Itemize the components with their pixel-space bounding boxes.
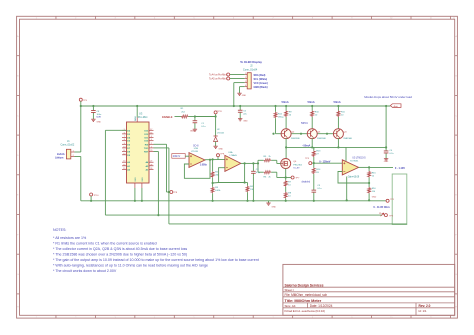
svg-text:TP11: TP11 bbox=[217, 111, 223, 113]
svg-text:VCC (Green): VCC (Green) bbox=[254, 82, 269, 85]
svg-text:1: 1 bbox=[73, 150, 74, 152]
svg-text:KiCad E.D.A. eeschema (6.0.10: KiCad E.D.A. eeschema (6.0.10) bbox=[285, 309, 326, 313]
svg-text:Mosfet drops about 50mV under: Mosfet drops about 50mV under load bbox=[364, 95, 412, 99]
svg-text:1: 1 bbox=[36, 317, 37, 319]
svg-text:To A5 on Pro-Mini: To A5 on Pro-Mini bbox=[209, 78, 227, 81]
svg-text:9: 9 bbox=[124, 143, 125, 145]
svg-text:GND: GND bbox=[384, 161, 389, 163]
svg-text:* R1 limits the current into C: * R1 limits the current into C1 when the… bbox=[53, 242, 157, 246]
svg-text:Gain=10.09: Gain=10.09 bbox=[348, 177, 360, 179]
svg-text:1: 1 bbox=[36, 18, 37, 20]
svg-text:8: 8 bbox=[312, 18, 313, 20]
svg-text:6.3V: 6.3V bbox=[97, 117, 102, 119]
svg-text:12: 12 bbox=[123, 153, 125, 155]
svg-text:6: 6 bbox=[233, 18, 234, 20]
svg-text:1.000x: 1.000x bbox=[200, 163, 208, 166]
svg-text:0 - 1.10V: 0 - 1.10V bbox=[395, 166, 405, 170]
svg-text:LT6A05: LT6A05 bbox=[230, 154, 238, 157]
svg-text:28: 28 bbox=[150, 164, 152, 166]
svg-text:* With auto-ranging, resistanc: * With auto-ranging, resistances of up t… bbox=[53, 264, 208, 268]
svg-text:Id: 1/1: Id: 1/1 bbox=[419, 309, 427, 313]
svg-text:TXO: TXO bbox=[144, 148, 149, 150]
svg-text:GND: GND bbox=[243, 121, 248, 123]
svg-text:1: 1 bbox=[151, 146, 152, 148]
svg-text:50mA: 50mA bbox=[282, 100, 289, 104]
svg-text:11: 11 bbox=[430, 317, 432, 319]
svg-text:NOTES:: NOTES: bbox=[53, 228, 66, 232]
svg-text:26: 26 bbox=[150, 168, 152, 170]
svg-text:Title: MilliOhm Meter: Title: MilliOhm Meter bbox=[285, 299, 322, 303]
svg-text:* The gain of the output amp i: * The gain of the output amp is 10.09 in… bbox=[53, 258, 259, 262]
svg-text:10: 10 bbox=[123, 146, 125, 148]
svg-text:RAW: RAW bbox=[134, 116, 137, 121]
svg-text:4: 4 bbox=[154, 18, 155, 20]
svg-text:GND: GND bbox=[372, 197, 377, 199]
svg-text:To OLED Display: To OLED Display bbox=[240, 60, 262, 64]
svg-text:Sheet: /: Sheet: / bbox=[285, 288, 295, 292]
svg-text:* The collector current in Q2A: * The collector current in Q2A, Q2B & Q3… bbox=[53, 247, 187, 251]
svg-text:2SB1586: 2SB1586 bbox=[291, 138, 300, 140]
svg-text:7: 7 bbox=[124, 136, 125, 138]
svg-text:16: 16 bbox=[150, 132, 152, 134]
svg-text:4: 4 bbox=[151, 136, 152, 138]
svg-text:Conn_01x02: Conn_01x02 bbox=[61, 143, 75, 146]
svg-text:4: 4 bbox=[154, 317, 155, 319]
svg-text:Date: 1/12/2024: Date: 1/12/2024 bbox=[310, 304, 333, 308]
svg-text:0 - 11.05 Ohm: 0 - 11.05 Ohm bbox=[373, 205, 390, 209]
svg-text:0 - 120mV: 0 - 120mV bbox=[319, 161, 331, 164]
svg-text:6: 6 bbox=[124, 132, 125, 134]
svg-text:9: 9 bbox=[351, 18, 352, 20]
svg-text:* The 2SB1586 was chosen over: * The 2SB1586 was chosen over a 2N2906 d… bbox=[53, 253, 187, 257]
svg-text:Pro-Mini: Pro-Mini bbox=[138, 115, 148, 119]
svg-text:TP10: TP10 bbox=[93, 195, 99, 197]
svg-text:ENABLE: ENABLE bbox=[162, 115, 173, 119]
svg-text:27: 27 bbox=[150, 161, 152, 163]
svg-text:2: 2 bbox=[151, 143, 152, 145]
svg-text:7: 7 bbox=[272, 18, 273, 20]
svg-text:Rev: 2.0: Rev: 2.0 bbox=[419, 304, 431, 308]
svg-text:GND: GND bbox=[135, 177, 137, 182]
svg-text:LT1635: LT1635 bbox=[191, 151, 199, 153]
svg-text:15: 15 bbox=[123, 168, 125, 170]
svg-text:50mA: 50mA bbox=[308, 100, 315, 104]
svg-text:200mV: 200mV bbox=[173, 155, 181, 158]
svg-text:GND: GND bbox=[142, 177, 144, 182]
svg-text:3: 3 bbox=[245, 81, 246, 83]
svg-text:To A4 on Pro-Mini: To A4 on Pro-Mini bbox=[209, 74, 227, 77]
svg-text:PE12302: PE12302 bbox=[293, 164, 302, 166]
svg-text:5: 5 bbox=[194, 317, 195, 319]
svg-text:GND: GND bbox=[242, 95, 247, 97]
svg-text:9: 9 bbox=[351, 317, 352, 319]
svg-text:2: 2 bbox=[245, 77, 246, 79]
svg-text:SCL (White): SCL (White) bbox=[254, 78, 268, 81]
svg-text:GND: GND bbox=[219, 149, 224, 151]
svg-text:U5A: U5A bbox=[228, 151, 233, 154]
svg-text:3: 3 bbox=[115, 18, 116, 20]
svg-text:disabled: disabled bbox=[302, 180, 311, 183]
svg-text:RXI: RXI bbox=[145, 144, 149, 146]
svg-text:29: 29 bbox=[150, 150, 152, 152]
svg-text:3: 3 bbox=[151, 139, 152, 141]
svg-text:File: MilliOhm_meter.kicad_sch: File: MilliOhm_meter.kicad_sch bbox=[285, 293, 328, 297]
svg-text:SO-8: SO-8 bbox=[193, 144, 199, 147]
svg-text:14: 14 bbox=[123, 164, 125, 166]
svg-text:* All resistors are 1%: * All resistors are 1% bbox=[53, 236, 87, 240]
svg-text:2SB1586: 2SB1586 bbox=[343, 138, 352, 140]
svg-text:LT1634: LT1634 bbox=[217, 132, 225, 134]
svg-text:1: 1 bbox=[245, 73, 246, 75]
svg-text:6: 6 bbox=[233, 317, 234, 319]
svg-text:2: 2 bbox=[75, 317, 76, 319]
svg-text:RST: RST bbox=[144, 152, 149, 154]
svg-text:1Meg: 1Meg bbox=[278, 116, 284, 118]
svg-text:7: 7 bbox=[272, 317, 273, 319]
svg-text:17: 17 bbox=[150, 129, 152, 131]
svg-text:SC-89: SC-89 bbox=[293, 168, 300, 170]
svg-text:U5 LT6015-5: U5 LT6015-5 bbox=[352, 156, 366, 159]
svg-text:2: 2 bbox=[73, 155, 74, 157]
svg-text:11: 11 bbox=[430, 18, 432, 20]
svg-text:50P19: 50P19 bbox=[301, 122, 308, 125]
svg-text:+Batt: +Batt bbox=[393, 105, 398, 108]
svg-text:13: 13 bbox=[123, 161, 125, 163]
svg-text:Lithium: Lithium bbox=[55, 157, 63, 160]
svg-text:4: 4 bbox=[245, 85, 246, 87]
svg-text:GND (Black): GND (Black) bbox=[254, 86, 268, 89]
svg-text:5: 5 bbox=[194, 18, 195, 20]
svg-text:Conn_01x04: Conn_01x04 bbox=[243, 67, 258, 71]
svg-text:10: 10 bbox=[390, 18, 392, 20]
svg-text:8: 8 bbox=[124, 139, 125, 141]
svg-text:2SB1586: 2SB1586 bbox=[317, 138, 326, 140]
svg-text:GND: GND bbox=[97, 122, 102, 124]
svg-text:GND: GND bbox=[190, 130, 195, 132]
svg-text:11: 11 bbox=[123, 150, 125, 152]
svg-text:8: 8 bbox=[312, 317, 313, 319]
svg-text:12: 12 bbox=[453, 317, 455, 319]
svg-text:12: 12 bbox=[453, 18, 455, 20]
svg-text:TLV9161: TLV9161 bbox=[350, 161, 359, 163]
svg-text:SDA (Red): SDA (Red) bbox=[254, 74, 266, 77]
svg-text:2: 2 bbox=[75, 18, 76, 20]
svg-text:GND: GND bbox=[272, 207, 277, 209]
svg-text:U1B: U1B bbox=[194, 148, 199, 150]
svg-text:Salerno Design Services: Salerno Design Services bbox=[285, 284, 324, 288]
svg-text:* The circuit works down to ab: * The circuit works down to about 2.00V bbox=[53, 269, 117, 273]
svg-text:10: 10 bbox=[390, 317, 392, 319]
svg-text:3: 3 bbox=[115, 317, 116, 319]
svg-text:50mA: 50mA bbox=[334, 100, 341, 104]
svg-text:Size: A4: Size: A4 bbox=[285, 304, 296, 308]
svg-text:~50mA: ~50mA bbox=[302, 143, 311, 147]
